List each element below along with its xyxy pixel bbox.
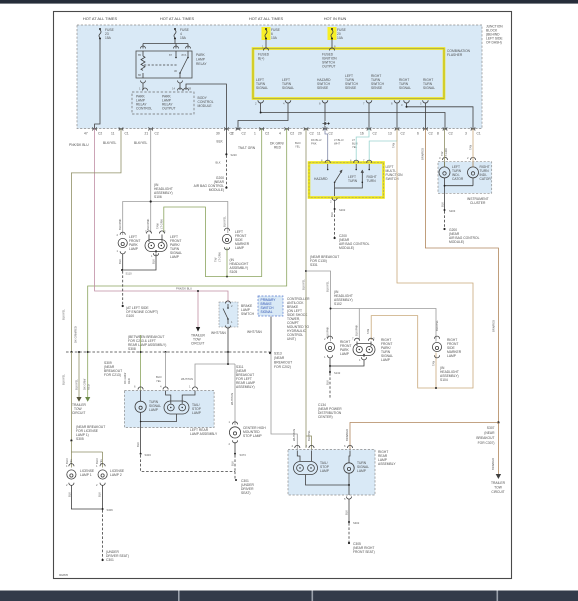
svg-text:BLK: BLK [217, 140, 224, 144]
svg-text:HOT AT ALL TIMES: HOT AT ALL TIMES [249, 16, 284, 21]
svg-text:BLK/YEL: BLK/YEL [62, 309, 66, 320]
svg-text:LT GRN: LT GRN [159, 219, 163, 229]
svg-text:WHT: WHT [334, 142, 340, 146]
svg-text:CENTER): CENTER) [318, 415, 333, 419]
svg-text:LT BLU/: LT BLU/ [334, 138, 344, 142]
svg-text:BRN/RED: BRN/RED [491, 458, 495, 470]
C134 label [318, 403, 342, 419]
svg-text:FOR C307): FOR C307) [478, 441, 495, 445]
svg-text:S373: S373 [240, 453, 247, 457]
svg-text:PNK: PNK [311, 142, 317, 146]
wire brake sw down [227, 328, 229, 353]
svg-text:C2: C2 [265, 132, 269, 136]
svg-text:LAMP 2: LAMP 2 [110, 473, 122, 477]
svg-text:LT: LT [352, 138, 355, 142]
svg-text:BLK: BLK [441, 202, 445, 207]
wire license grounds [71, 485, 102, 509]
svg-text:LAMP 1: LAMP 1 [80, 473, 92, 477]
right rear label [378, 450, 396, 466]
svg-text:S102: S102 [334, 302, 342, 306]
wire switch feed cyan 1 [356, 129, 369, 164]
svg-text:TN/: TN/ [214, 257, 218, 262]
main dashed bus [66, 351, 270, 353]
svg-text:S331: S331 [310, 263, 318, 267]
svg-text:85: 85 [138, 53, 141, 57]
svg-text:16: 16 [360, 132, 364, 136]
svg-text:YEL: YEL [352, 145, 358, 149]
svg-text:LAMP: LAMP [235, 246, 245, 250]
svg-text:S132: S132 [334, 371, 341, 375]
svg-text:BLK/YEL: BLK/YEL [223, 216, 227, 227]
svg-text:BLK/: BLK/ [156, 375, 162, 379]
svg-text:PNK/DK BLU: PNK/DK BLU [176, 287, 192, 291]
svg-text:4: 4 [279, 132, 281, 136]
svg-text:DK GRN/: DK GRN/ [123, 373, 127, 384]
svg-text:STOP LAMP: STOP LAMP [243, 434, 263, 438]
svg-text:SIGNAL: SIGNAL [282, 86, 294, 90]
svg-text:ASSEMBLY): ASSEMBLY) [236, 385, 255, 389]
wire cluster grounds [445, 178, 474, 210]
svg-text:WHT/TAN: WHT/TAN [292, 429, 296, 441]
svg-text:C2: C2 [373, 132, 377, 136]
page frame [54, 12, 512, 579]
svg-text:DK BLU/: DK BLU/ [311, 138, 322, 142]
wire green to left rear [140, 335, 142, 391]
wire fuse23 down [95, 40, 100, 129]
left rear grounds [141, 412, 177, 421]
svg-text:S305: S305 [76, 437, 84, 441]
wire blkyel2 with splice S106 [123, 129, 228, 236]
svg-text:MODULE): MODULE) [339, 246, 354, 250]
svg-text:2: 2 [231, 132, 233, 136]
relay K1 park lamp relay [136, 46, 207, 83]
svg-text:RED: RED [274, 146, 282, 150]
wire rear ground down [140, 428, 142, 454]
svg-text:86: 86 [138, 73, 141, 77]
svg-text:RELAY: RELAY [196, 62, 207, 66]
wire branch to right lamps [306, 271, 436, 342]
svg-text:902835: 902835 [59, 573, 68, 577]
svg-text:TURN: TURN [367, 179, 377, 183]
svg-text:3: 3 [465, 132, 467, 136]
wire trailer park branch [197, 291, 199, 327]
svg-text:S303: S303 [145, 453, 152, 457]
svg-text:G100: G100 [126, 314, 134, 318]
bottom task bar [0, 591, 578, 601]
svg-text:BLK: BLK [231, 461, 235, 466]
svg-text:BLK: BLK [98, 492, 102, 497]
svg-text:MODULE): MODULE) [209, 188, 224, 192]
svg-text:BLK: BLK [216, 161, 221, 165]
svg-text:(NEAR: (NEAR [484, 431, 495, 435]
svg-text:BLK/YEL: BLK/YEL [435, 320, 439, 331]
svg-text:15A: 15A [180, 36, 187, 40]
hot labels [83, 16, 347, 21]
bus dots [70, 351, 72, 353]
svg-text:LAMP: LAMP [196, 58, 206, 62]
S102 label [334, 290, 353, 306]
svg-text:BLK: BLK [326, 380, 330, 385]
wire switch feed dk blu [325, 129, 328, 164]
svg-text:LAMP: LAMP [149, 408, 159, 412]
svg-text:10A: 10A [337, 36, 344, 40]
svg-text:SWITCH: SWITCH [241, 312, 255, 316]
svg-text:CATOR: CATOR [452, 177, 464, 181]
svg-text:CATOR: CATOR [480, 177, 492, 181]
svg-text:(NEAR: (NEAR [274, 356, 285, 360]
svg-text:BRN/RED: BRN/RED [492, 320, 496, 332]
svg-text:C2: C2 [310, 132, 314, 136]
svg-text:S302: S302 [353, 521, 360, 525]
wire right lamps ground [330, 358, 364, 367]
splice S105 sidemarker [226, 276, 228, 278]
svg-text:BLK/: BLK/ [295, 141, 301, 145]
svg-text:LAMP: LAMP [381, 358, 391, 362]
wire ground G100 dashed [122, 271, 124, 306]
C301 label [241, 479, 254, 495]
svg-text:LT GRN: LT GRN [444, 148, 448, 158]
svg-text:11: 11 [111, 132, 115, 136]
junction block label [486, 25, 503, 45]
svg-text:BLK/YEL: BLK/YEL [326, 281, 330, 292]
svg-text:BLU/: BLU/ [352, 142, 358, 146]
left rear lamp assembly [124, 385, 214, 428]
svg-text:BLK: BLK [118, 259, 122, 264]
svg-text:TAN: TAN [469, 145, 473, 150]
svg-text:LT GRN: LT GRN [218, 252, 222, 262]
svg-text:LAMP ASSEMBLY: LAMP ASSEMBLY [190, 432, 218, 436]
wire chmsl ground [234, 442, 236, 454]
svg-text:SIGNAL: SIGNAL [256, 86, 268, 90]
svg-text:BLK/YEL: BLK/YEL [75, 379, 79, 390]
S104 label [440, 366, 459, 382]
S307 label [476, 426, 495, 445]
svg-text:DK GRN/RED: DK GRN/RED [74, 326, 78, 343]
svg-text:CIRCUIT: CIRCUIT [491, 490, 504, 494]
wire flasher pin7 [368, 103, 370, 129]
wire flasher pin4 bus [238, 103, 288, 129]
wire abs down [270, 317, 272, 353]
svg-text:TAN/: TAN/ [156, 223, 160, 229]
svg-text:S106: S106 [154, 195, 162, 199]
svg-text:S306: S306 [107, 508, 114, 512]
svg-text:8: 8 [437, 132, 439, 136]
junction block edge connectors [93, 127, 475, 130]
svg-text:C2: C2 [242, 132, 246, 136]
svg-text:PARK: PARK [196, 53, 206, 57]
svg-text:SIGNAL: SIGNAL [261, 310, 273, 314]
S331 label [310, 255, 339, 267]
svg-text:BLK/: BLK/ [65, 458, 69, 464]
fuse F23 [99, 28, 115, 40]
flasher bottom pin wires [255, 100, 428, 107]
fuse F20 highlighted [328, 27, 347, 40]
top window bar [0, 0, 578, 4]
svg-text:WHT/TAN: WHT/TAN [211, 331, 226, 335]
svg-text:21: 21 [145, 132, 149, 136]
combination flasher label [447, 49, 471, 57]
instrument cluster [438, 156, 492, 193]
svg-text:UNIT): UNIT) [287, 337, 296, 341]
svg-text:BLK/PNK: BLK/PNK [146, 218, 150, 230]
svg-text:S307: S307 [487, 426, 495, 430]
svg-text:BLK/: BLK/ [95, 458, 99, 464]
svg-text:LAMP: LAMP [340, 352, 350, 356]
junction block bottom connectors [84, 132, 481, 136]
svg-text:C301: C301 [106, 558, 114, 562]
lamp L1 left front park [117, 232, 141, 254]
svg-text:BLK/YEL: BLK/YEL [103, 141, 117, 145]
wire pink park feed [95, 129, 228, 303]
wire blkyel right rear pin jog [306, 436, 312, 450]
svg-text:WHT/TAN: WHT/TAN [230, 393, 234, 405]
right rear grounds [306, 474, 350, 486]
center high mounted stop lamp [229, 364, 267, 446]
svg-text:HOT IN RUN: HOT IN RUN [324, 16, 347, 21]
svg-text:SENSE: SENSE [317, 86, 329, 90]
wire flasher pin8 with inline connector [323, 103, 330, 129]
svg-text:CLUSTER: CLUSTER [470, 201, 486, 205]
wire blkyel bus down to rear [165, 352, 167, 388]
svg-text:LAMP: LAMP [170, 255, 180, 259]
svg-text:6: 6 [417, 132, 419, 136]
svg-text:TAN: TAN [392, 143, 396, 148]
wire flasher pin8b [396, 103, 398, 129]
brown junction [497, 421, 499, 423]
trailer arrow green [85, 397, 90, 402]
svg-text:SEAT): SEAT) [241, 491, 250, 495]
wire trailer blk branch [78, 352, 80, 397]
svg-text:13: 13 [388, 132, 392, 136]
svg-text:WHT/TAN: WHT/TAN [247, 330, 262, 334]
svg-text:TN/LT GRN: TN/LT GRN [238, 146, 256, 150]
wire brown trailer [497, 423, 499, 474]
svg-text:HOT AT ALL TIMES: HOT AT ALL TIMES [83, 16, 118, 21]
svg-text:FOR C213): FOR C213) [104, 373, 121, 377]
svg-text:C2: C2 [449, 132, 453, 136]
svg-text:WHT/TAN: WHT/TAN [181, 377, 193, 381]
svg-text:1: 1 [254, 132, 256, 136]
wire brown long run [425, 129, 498, 423]
lamp R1 right front park [324, 336, 351, 359]
svg-text:S203: S203 [449, 209, 456, 213]
svg-text:BLK/YEL: BLK/YEL [307, 430, 311, 441]
svg-text:OUTPUT: OUTPUT [162, 107, 176, 111]
svg-text:SIGNAL: SIGNAL [423, 86, 435, 90]
wire olive jog blk/yel [71, 129, 121, 353]
svg-text:30: 30 [216, 132, 220, 136]
svg-text:TOW: TOW [494, 486, 503, 490]
combination flasher [253, 49, 444, 99]
svg-text:C2: C2 [98, 132, 102, 136]
svg-text:BLK/YEL: BLK/YEL [62, 374, 66, 385]
svg-text:LAMP: LAMP [320, 469, 330, 473]
svg-text:BLK: BLK [152, 259, 156, 264]
svg-text:OUTPUT: OUTPUT [322, 65, 336, 69]
svg-text:15A: 15A [105, 36, 112, 40]
svg-text:LAMP: LAMP [447, 354, 457, 358]
wire license feeds [71, 441, 102, 468]
lamp turn signal rear left [135, 391, 161, 413]
svg-text:BREAKOUT: BREAKOUT [476, 436, 494, 440]
svg-text:CIRCUIT: CIRCUIT [72, 411, 85, 415]
splice S104 sidemarker [435, 353, 437, 389]
lamp tail stop rear right [294, 451, 330, 475]
svg-text:SENSE: SENSE [371, 86, 383, 90]
svg-text:C1: C1 [477, 132, 481, 136]
brake lamp switch [219, 301, 255, 328]
svg-text:CIRCUIT: CIRCUIT [191, 342, 204, 346]
svg-text:YEL: YEL [295, 145, 301, 149]
svg-text:TURN: TURN [348, 179, 358, 183]
svg-text:YEL: YEL [156, 379, 162, 383]
flasher top pins [262, 40, 336, 51]
lamp license 1 [66, 464, 95, 487]
fuse F4 [174, 28, 190, 40]
svg-text:C2: C2 [329, 132, 333, 136]
svg-text:10A: 10A [271, 36, 278, 40]
wire L1 L2 ground [123, 254, 156, 271]
splice label S106 [154, 183, 173, 199]
ABS primary brake switch box [258, 296, 310, 341]
svg-text:S220: S220 [231, 153, 238, 157]
svg-text:SIGNAL: SIGNAL [399, 86, 411, 90]
left multifunction switch [309, 159, 403, 204]
wire brown to right rear [350, 423, 498, 451]
svg-text:CONTROL: CONTROL [136, 107, 152, 111]
svg-text:BLK/YEL: BLK/YEL [134, 141, 148, 145]
svg-text:C2: C2 [290, 132, 294, 136]
svg-text:OF DASH): OF DASH) [486, 41, 502, 45]
svg-text:PNK/DK BLU: PNK/DK BLU [69, 143, 89, 147]
wire fuse4 to relay [143, 40, 188, 49]
svg-text:S202: S202 [339, 208, 346, 212]
wire switch feed cyan 2 [369, 129, 397, 164]
lamp tail stop rear left [164, 391, 202, 416]
svg-text:B(+): B(+) [258, 57, 264, 61]
svg-text:LAMP: LAMP [129, 247, 139, 251]
wire to C301 dashed [102, 510, 104, 560]
svg-text:LAMP: LAMP [192, 411, 202, 415]
lamp R2 right front park/turn [352, 337, 393, 363]
svg-text:S308: S308 [128, 347, 136, 351]
svg-text:ASSEMBLY: ASSEMBLY [378, 462, 396, 466]
wire BLK/YEL long right [305, 129, 307, 449]
svg-text:47: 47 [84, 132, 88, 136]
fuse F6 highlighted [262, 27, 281, 40]
svg-text:FLASHER: FLASHER [447, 53, 463, 57]
lamp turn signal rear right [344, 451, 369, 474]
junction block box [77, 25, 482, 129]
wire switch ground [334, 200, 336, 210]
splice S305 [70, 439, 72, 441]
lamp L2 left front park/turn [145, 230, 182, 260]
svg-text:TAN: TAN [366, 329, 370, 334]
svg-text:MODULE): MODULE) [449, 240, 464, 244]
wire G200 left black [225, 129, 227, 155]
wire whttan to rear [195, 364, 235, 388]
svg-text:TRAILER: TRAILER [491, 481, 506, 485]
S309 label [104, 361, 122, 377]
svg-text:BLK: BLK [330, 212, 334, 217]
svg-text:YEL: YEL [69, 458, 73, 464]
svg-text:87A: 87A [182, 53, 187, 57]
svg-text:MODULE: MODULE [198, 104, 213, 108]
svg-text:LAMP: LAMP [357, 469, 367, 473]
svg-text:S313: S313 [274, 352, 282, 356]
svg-text:11: 11 [317, 132, 321, 136]
wire DK GRN/RED outer loop [88, 129, 287, 398]
wire flasher pin3 bus [407, 103, 474, 129]
svg-text:BRN/RED: BRN/RED [345, 429, 349, 441]
svg-text:RED: RED [87, 384, 91, 390]
svg-text:BLK: BLK [345, 510, 349, 515]
svg-text:BLK: BLK [68, 492, 72, 497]
wire cluster feeds [444, 129, 446, 167]
svg-text:BREAKOUT: BREAKOUT [274, 361, 292, 365]
svg-text:BLK/PNK: BLK/PNK [355, 324, 359, 336]
svg-text:TAN: TAN [432, 361, 436, 366]
svg-text:C2: C2 [401, 132, 405, 136]
wire flasher pin2 bus [261, 103, 445, 129]
svg-text:BLK/PNK: BLK/PNK [118, 218, 122, 230]
S308 label [128, 335, 166, 351]
wire relay to BCM [143, 83, 226, 129]
body control module [132, 87, 214, 115]
svg-text:30: 30 [174, 69, 177, 73]
wire TN/LT GRN left turn staircase [164, 129, 262, 277]
svg-text:BLK: BLK [136, 442, 140, 447]
svg-text:TN/: TN/ [440, 151, 444, 156]
svg-text:HAZARD: HAZARD [314, 177, 328, 181]
svg-text:FRONT SEAT): FRONT SEAT) [353, 550, 375, 554]
lamp R3 right front side marker [432, 336, 462, 366]
svg-text:BLK/YEL: BLK/YEL [302, 279, 306, 290]
svg-text:S105: S105 [230, 270, 238, 274]
svg-text:C1: C1 [125, 132, 129, 136]
right rear lamp assembly [288, 444, 375, 495]
svg-text:DK GRN/: DK GRN/ [83, 379, 87, 390]
trailer arrow 1 [196, 327, 200, 332]
svg-text:BRN/RED: BRN/RED [421, 148, 425, 160]
svg-text:SENSE: SENSE [345, 86, 357, 90]
svg-text:28: 28 [188, 87, 191, 91]
svg-text:HOT AT ALL TIMES: HOT AT ALL TIMES [160, 16, 195, 21]
svg-text:YEL: YEL [99, 458, 103, 464]
lamp L3 left front side marker [214, 228, 250, 262]
wire flasher pin5 [424, 103, 426, 129]
S311 label [236, 365, 256, 389]
svg-text:S110: S110 [126, 272, 133, 276]
wire blk/yel license feed down [70, 352, 72, 441]
svg-text:87: 87 [169, 53, 172, 57]
svg-text:RED: RED [127, 378, 131, 384]
svg-text:S104: S104 [440, 378, 448, 382]
svg-text:14: 14 [172, 87, 175, 91]
svg-text:C2: C2 [155, 132, 159, 136]
lamp license 2 [96, 464, 125, 487]
svg-text:FOR C202): FOR C202) [274, 365, 291, 369]
svg-text:20: 20 [298, 132, 302, 136]
svg-text:C2: C2 [429, 132, 433, 136]
